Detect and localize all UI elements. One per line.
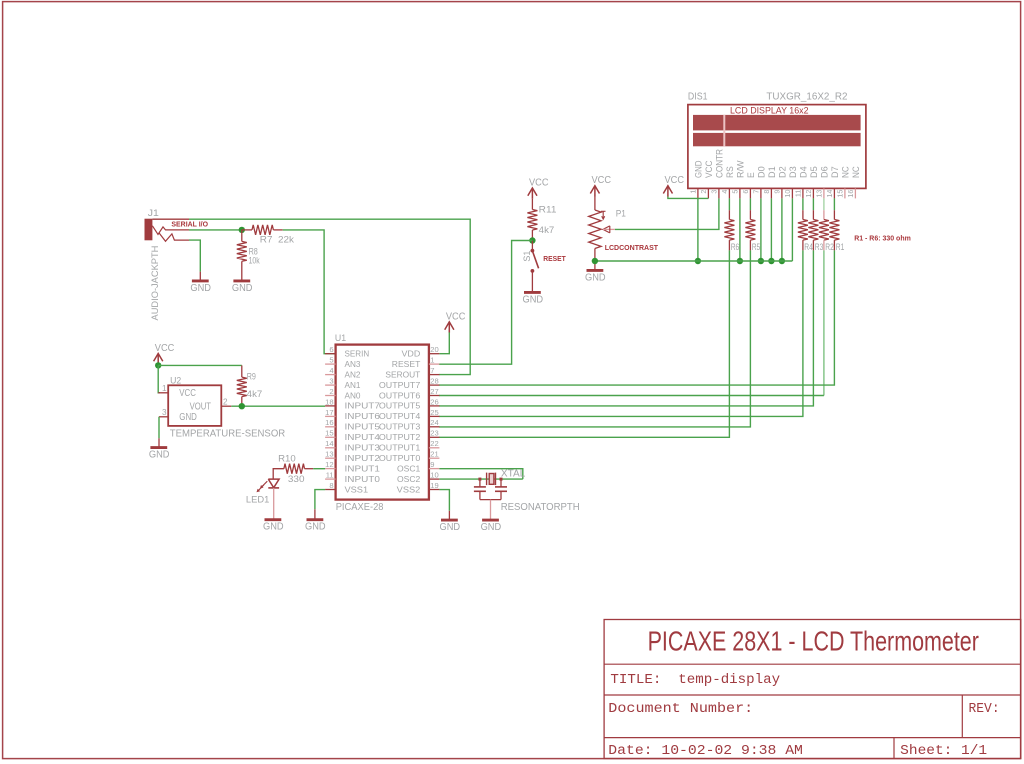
svg-text:PICAXE-28: PICAXE-28 xyxy=(336,502,384,513)
svg-text:VCC: VCC xyxy=(446,311,466,322)
ground at LED1 xyxy=(263,520,284,533)
potentiometer P1 xyxy=(589,197,615,271)
svg-text:DIS1: DIS1 xyxy=(688,91,708,102)
U1 refdes xyxy=(335,333,346,343)
svg-text:Sheet: 1/1: Sheet: 1/1 xyxy=(900,743,987,759)
svg-text:8: 8 xyxy=(329,481,333,490)
U1 left pin stubs xyxy=(325,354,336,490)
svg-text:18: 18 xyxy=(325,397,333,406)
svg-text:NC: NC xyxy=(851,166,861,178)
resistor R8 xyxy=(237,230,247,281)
svg-text:SEROUT: SEROUT xyxy=(385,369,421,379)
note R1 - R6: 330 ohm xyxy=(854,233,911,242)
wire LCD pin10 D3 to bus corner xyxy=(791,198,793,261)
svg-text:RESET: RESET xyxy=(392,359,421,369)
svg-text:GND: GND xyxy=(149,450,170,461)
svg-text:23: 23 xyxy=(430,429,438,438)
U1 right pin numbers xyxy=(430,345,438,490)
svg-text:INPUT5: INPUT5 xyxy=(345,422,381,432)
svg-text:2: 2 xyxy=(223,398,228,407)
svg-text:AN3: AN3 xyxy=(345,359,361,369)
svg-text:17: 17 xyxy=(325,408,333,417)
svg-text:14: 14 xyxy=(825,190,834,198)
wire LCD pin1 GND down to bus xyxy=(697,198,699,261)
label AUDIO-JACKPTH xyxy=(150,245,161,320)
U2 pin label GND xyxy=(179,412,197,423)
svg-text:GND: GND xyxy=(440,522,461,533)
svg-text:D7: D7 xyxy=(830,166,840,178)
svg-text:PICAXE 28X1 - LCD Thermometer: PICAXE 28X1 - LCD Thermometer xyxy=(648,625,979,657)
svg-text:LCD DISPLAY 16x2: LCD DISPLAY 16x2 xyxy=(730,105,809,116)
svg-text:VCC: VCC xyxy=(592,175,612,186)
svg-text:20: 20 xyxy=(430,345,438,354)
svg-text:VCC: VCC xyxy=(155,343,175,354)
svg-text:GND: GND xyxy=(481,522,502,533)
resistor R3 xyxy=(808,198,818,250)
label R10 xyxy=(278,454,296,464)
svg-text:15: 15 xyxy=(836,190,845,198)
svg-text:SERIN: SERIN xyxy=(345,349,370,359)
svg-text:INPUT2: INPUT2 xyxy=(345,453,381,463)
node R9 VOUT junction xyxy=(239,403,245,409)
svg-text:6: 6 xyxy=(741,190,750,194)
label R2 xyxy=(825,242,834,252)
ground at resonator xyxy=(481,520,502,533)
svg-text:U1: U1 xyxy=(335,333,346,343)
U2 refdes xyxy=(170,375,181,385)
label 330 of R10 xyxy=(288,474,305,484)
svg-text:7: 7 xyxy=(430,366,434,375)
svg-text:6: 6 xyxy=(329,345,333,354)
resistor R9 xyxy=(237,365,247,406)
svg-text:R11: R11 xyxy=(539,205,557,215)
svg-text:21: 21 xyxy=(430,450,438,459)
U2 pin label VCC xyxy=(179,388,196,399)
connector J1 refdes xyxy=(148,208,159,218)
wire R4 to PICAXE output xyxy=(439,250,803,416)
LED LED1 xyxy=(257,479,280,520)
wire U2 pin3 to ground xyxy=(158,417,160,448)
ground at VSS1 xyxy=(305,520,326,533)
label XTAL xyxy=(501,468,526,479)
net label LCDCONTRAST xyxy=(605,243,659,252)
label R4 xyxy=(804,242,813,252)
wire R1 to PICAXE output xyxy=(439,250,835,385)
svg-text:12: 12 xyxy=(804,190,813,198)
LCD DISPLAY 16x2 label xyxy=(730,105,809,116)
wire LCD pin3 CONTR to P1 wiper xyxy=(615,198,719,229)
svg-text:GND: GND xyxy=(585,272,606,283)
node LCD pin1 on GND bus xyxy=(695,258,701,264)
U2 pin label VOUT xyxy=(190,402,211,413)
svg-text:1: 1 xyxy=(162,384,167,393)
document number row xyxy=(608,701,753,717)
svg-text:16: 16 xyxy=(325,418,333,427)
LCD pin numbers 1-16 xyxy=(689,190,856,198)
svg-text:Date: 10-02-02 9:38 AM: Date: 10-02-02 9:38 AM xyxy=(608,743,803,759)
svg-text:10k: 10k xyxy=(249,256,260,266)
svg-text:VDD: VDD xyxy=(402,349,421,359)
svg-text:TUXGR_16X2_R2: TUXGR_16X2_R2 xyxy=(766,91,848,102)
svg-text:VOUT: VOUT xyxy=(190,402,211,413)
svg-text:R9: R9 xyxy=(247,371,256,381)
resistor R2 xyxy=(819,198,829,250)
LCD screen row 1 xyxy=(693,115,861,130)
svg-text:RS: RS xyxy=(725,166,735,178)
svg-text:NC: NC xyxy=(841,166,851,178)
label LED1 xyxy=(246,495,269,505)
svg-text:4k7: 4k7 xyxy=(539,225,555,235)
svg-text:5: 5 xyxy=(731,190,740,194)
ground at VSS2 xyxy=(440,520,461,533)
svg-text:12: 12 xyxy=(325,460,333,469)
LCD display U-DIS1 body xyxy=(688,105,866,189)
svg-text:24: 24 xyxy=(430,418,438,427)
wire VCC down to U2 pin1 xyxy=(158,365,160,392)
svg-text:OUTPUT6: OUTPUT6 xyxy=(379,390,421,400)
GND bus wire below LCD xyxy=(595,260,793,262)
label R5 xyxy=(752,242,761,252)
U2 pin number 3 xyxy=(162,408,167,417)
date row xyxy=(608,743,803,759)
svg-text:INPUT0: INPUT0 xyxy=(345,474,381,484)
U1 right pin stubs xyxy=(429,354,440,490)
label R6 xyxy=(731,242,740,252)
svg-text:INPUT3: INPUT3 xyxy=(345,443,381,453)
label R7 22k xyxy=(260,235,295,245)
svg-text:OSC1: OSC1 xyxy=(397,463,421,473)
svg-text:15: 15 xyxy=(325,429,333,438)
svg-text:330: 330 xyxy=(288,474,305,484)
wire VSS1 to ground xyxy=(315,490,325,520)
svg-text:GND: GND xyxy=(190,283,211,294)
svg-text:13: 13 xyxy=(815,190,824,198)
svg-text:GND: GND xyxy=(305,522,326,533)
svg-text:VCC: VCC xyxy=(179,388,196,399)
svg-text:OUTPUT3: OUTPUT3 xyxy=(379,422,421,432)
svg-text:INPUT4: INPUT4 xyxy=(345,432,381,442)
U1 right pin labels xyxy=(379,349,421,495)
title row TITLE: temp-display xyxy=(610,672,780,688)
wire RESET net to PICAXE pin1 xyxy=(439,241,533,365)
svg-text:INPUT6: INPUT6 xyxy=(345,411,381,421)
svg-text:VCC: VCC xyxy=(704,160,714,178)
wire VSS2 to ground xyxy=(439,490,449,520)
label R8 xyxy=(249,246,258,256)
svg-text:GND: GND xyxy=(263,522,284,533)
svg-text:E: E xyxy=(746,172,756,178)
svg-text:S1: S1 xyxy=(522,251,532,262)
svg-text:9: 9 xyxy=(773,190,782,194)
node R11 S1 RESET junction xyxy=(529,237,535,243)
wire R3 to PICAXE output xyxy=(439,250,814,406)
svg-text:INPUT1: INPUT1 xyxy=(345,463,381,473)
svg-text:OUTPUT5: OUTPUT5 xyxy=(379,401,421,411)
LCD screen divider xyxy=(723,115,725,146)
svg-text:10: 10 xyxy=(430,471,438,480)
resonator capacitors xyxy=(474,479,507,520)
wire OSC2 xyxy=(439,478,522,480)
svg-text:D4: D4 xyxy=(799,166,809,178)
wire J1 sleeve to ground xyxy=(189,240,200,281)
svg-text:LED1: LED1 xyxy=(246,495,269,505)
wire VCC to VDD pin xyxy=(439,332,449,353)
ground at J1 sleeve xyxy=(190,281,211,294)
VCC symbol at VDD xyxy=(445,311,466,332)
U1 left pin labels xyxy=(345,349,381,495)
title block frame xyxy=(604,620,1021,759)
label 10k of R8 xyxy=(249,256,260,266)
svg-text:3: 3 xyxy=(162,408,167,417)
net label SERIAL I/O xyxy=(171,219,208,228)
svg-text:OUTPUT1: OUTPUT1 xyxy=(379,443,421,453)
VCC symbol at R11 xyxy=(528,177,549,198)
LCD pin name labels xyxy=(694,149,862,178)
svg-text:RESET: RESET xyxy=(543,254,566,263)
svg-text:D0: D0 xyxy=(757,166,767,178)
temperature sensor U2 body xyxy=(158,385,231,426)
node VCC R9 junction xyxy=(155,362,161,368)
svg-text:19: 19 xyxy=(430,481,438,490)
svg-text:3: 3 xyxy=(329,377,333,386)
svg-text:OSC2: OSC2 xyxy=(397,474,421,484)
svg-text:25: 25 xyxy=(430,408,438,417)
svg-text:TITLE: temp-display: TITLE: temp-display xyxy=(610,672,780,688)
label R1 xyxy=(836,242,845,252)
svg-text:4k7: 4k7 xyxy=(247,389,263,399)
svg-text:CONTR: CONTR xyxy=(715,149,725,178)
switch S1 xyxy=(531,241,539,293)
svg-text:1: 1 xyxy=(689,190,698,194)
label RESONATORPTH xyxy=(501,502,580,513)
LCD pin stubs xyxy=(698,188,856,198)
svg-text:AN1: AN1 xyxy=(345,380,361,390)
svg-text:26: 26 xyxy=(430,397,438,406)
LCD display part name TUXGR_16X2_R2 xyxy=(766,91,848,102)
LCD screen row 2 xyxy=(693,133,861,146)
resistor R5 xyxy=(745,198,755,250)
svg-text:2: 2 xyxy=(329,387,333,396)
svg-text:TEMPERATURE-SENSOR: TEMPERATURE-SENSOR xyxy=(170,429,285,440)
svg-text:R10: R10 xyxy=(278,454,296,464)
svg-text:5: 5 xyxy=(329,356,333,365)
label P1 xyxy=(616,208,626,218)
ground at U2 xyxy=(149,448,170,461)
svg-text:OUTPUT2: OUTPUT2 xyxy=(379,432,421,442)
svg-text:27: 27 xyxy=(430,387,438,396)
wire R6 to OUTPUT2 xyxy=(439,250,730,437)
svg-text:R1 - R6: 330 ohm: R1 - R6: 330 ohm xyxy=(854,233,911,242)
wire R2 to PICAXE output xyxy=(439,250,824,395)
svg-text:D3: D3 xyxy=(788,166,798,178)
label R9 xyxy=(247,371,256,381)
title text xyxy=(648,625,979,657)
svg-text:D2: D2 xyxy=(778,166,788,178)
VCC symbol at U2 xyxy=(154,343,175,364)
svg-text:11: 11 xyxy=(794,190,803,197)
resistor R10 xyxy=(273,464,325,479)
U1 left pin numbers xyxy=(325,345,333,490)
svg-text:R6: R6 xyxy=(731,242,740,252)
VCC symbol at P1 xyxy=(590,175,611,196)
svg-text:VSS1: VSS1 xyxy=(345,484,369,494)
resonator XTAL crystal xyxy=(478,473,502,486)
svg-text:9: 9 xyxy=(430,460,434,469)
svg-text:AN2: AN2 xyxy=(345,369,361,379)
wire OSC1 loop xyxy=(439,469,522,479)
sheet cell xyxy=(900,743,987,759)
wire VOUT to INPUT7 xyxy=(231,405,325,407)
wire R7 to SERIN xyxy=(283,230,336,354)
svg-text:AUDIO-JACKPTH: AUDIO-JACKPTH xyxy=(150,245,161,320)
label 4k7 of R11 xyxy=(539,225,555,235)
wire LCD pin9 D2 to bus xyxy=(779,198,785,264)
svg-text:GND: GND xyxy=(694,160,704,178)
svg-text:D6: D6 xyxy=(820,166,830,178)
svg-text:D5: D5 xyxy=(809,166,819,178)
rev cell xyxy=(969,701,1000,717)
resistor R6 xyxy=(724,198,734,250)
svg-text:D1: D1 xyxy=(767,166,777,178)
resistor R4 xyxy=(798,198,808,250)
svg-text:VCC: VCC xyxy=(665,175,685,186)
svg-text:OUTPUT4: OUTPUT4 xyxy=(379,411,421,421)
label S1 xyxy=(522,251,532,262)
VCC symbol at LCD xyxy=(663,175,684,196)
resistor R11 xyxy=(527,199,537,241)
wire LCD pin5 R/W to bus xyxy=(737,198,743,264)
svg-text:22: 22 xyxy=(430,439,438,448)
svg-text:14: 14 xyxy=(325,439,333,448)
audio jack J1 body xyxy=(145,219,190,242)
wire LCD pin8 D1 to bus xyxy=(768,198,774,264)
wire J1 tip to SEROUT xyxy=(189,219,470,374)
label R11 xyxy=(539,205,557,215)
svg-text:R1: R1 xyxy=(836,242,845,252)
svg-text:VSS2: VSS2 xyxy=(397,484,421,494)
node P1 gnd junction xyxy=(592,258,598,264)
svg-text:4: 4 xyxy=(329,366,333,375)
svg-text:XTAL: XTAL xyxy=(501,468,526,479)
node R7 R8 junction xyxy=(239,227,245,233)
svg-text:Document Number:: Document Number: xyxy=(608,701,753,717)
wire R5 to OUTPUT3 xyxy=(439,250,751,427)
svg-text:R5: R5 xyxy=(752,242,761,252)
svg-text:R2: R2 xyxy=(825,242,834,252)
svg-text:3: 3 xyxy=(710,190,719,194)
svg-text:11: 11 xyxy=(326,471,334,480)
ground at R8 xyxy=(232,281,253,294)
svg-text:U2: U2 xyxy=(170,375,181,385)
svg-text:AN0: AN0 xyxy=(345,390,361,400)
svg-text:10: 10 xyxy=(783,190,792,198)
svg-text:VCC: VCC xyxy=(529,177,549,188)
svg-text:REV:: REV: xyxy=(969,701,1000,717)
svg-text:OUTPUT0: OUTPUT0 xyxy=(379,453,421,463)
svg-text:R7 22k: R7 22k xyxy=(260,235,295,245)
wire VCC to LCD pin 2 xyxy=(668,197,709,199)
U2 pin number 2 xyxy=(223,398,228,407)
svg-text:J1: J1 xyxy=(148,208,159,218)
svg-text:LCDCONTRAST: LCDCONTRAST xyxy=(605,243,659,252)
resistor R7 xyxy=(242,225,283,235)
svg-text:RESONATORPTH: RESONATORPTH xyxy=(501,502,580,513)
wire P1 wiper to CONTR xyxy=(614,228,616,230)
svg-text:1: 1 xyxy=(430,356,434,365)
svg-text:4: 4 xyxy=(720,190,729,194)
svg-text:13: 13 xyxy=(325,450,333,459)
svg-text:GND: GND xyxy=(523,294,544,305)
svg-text:SERIAL I/O: SERIAL I/O xyxy=(171,219,208,228)
ground at P1 xyxy=(585,270,606,283)
label 4k7 of R9 xyxy=(247,389,263,399)
svg-text:R4: R4 xyxy=(804,242,813,252)
svg-text:OUTPUT7: OUTPUT7 xyxy=(379,380,421,390)
label TEMPERATURE-SENSOR xyxy=(170,429,285,440)
svg-text:P1: P1 xyxy=(616,208,626,218)
LCD display DIS1 refdes label xyxy=(688,91,708,102)
PICAXE-28 U1 body xyxy=(336,345,429,500)
svg-text:8: 8 xyxy=(762,190,771,194)
ground at S1 xyxy=(523,292,544,305)
svg-text:R3: R3 xyxy=(815,242,824,252)
svg-text:GND: GND xyxy=(232,283,253,294)
U2 pin number 1 xyxy=(162,384,167,393)
label R3 xyxy=(815,242,824,252)
svg-text:GND: GND xyxy=(179,412,197,423)
resistor R1 xyxy=(829,198,839,250)
wire J1 ring to R7/R8 junction and SERIN xyxy=(189,229,242,231)
wire VCC to R9 top xyxy=(158,364,242,366)
label PICAXE-28 xyxy=(336,502,384,513)
net label RESET xyxy=(543,254,566,263)
wire LCD pin7 D0 to bus xyxy=(758,198,764,264)
svg-text:2: 2 xyxy=(699,190,708,194)
svg-text:7: 7 xyxy=(752,190,761,194)
svg-text:28: 28 xyxy=(430,377,438,386)
svg-text:16: 16 xyxy=(846,190,855,198)
svg-text:INPUT7: INPUT7 xyxy=(345,401,381,411)
svg-text:R/W: R/W xyxy=(736,160,746,178)
